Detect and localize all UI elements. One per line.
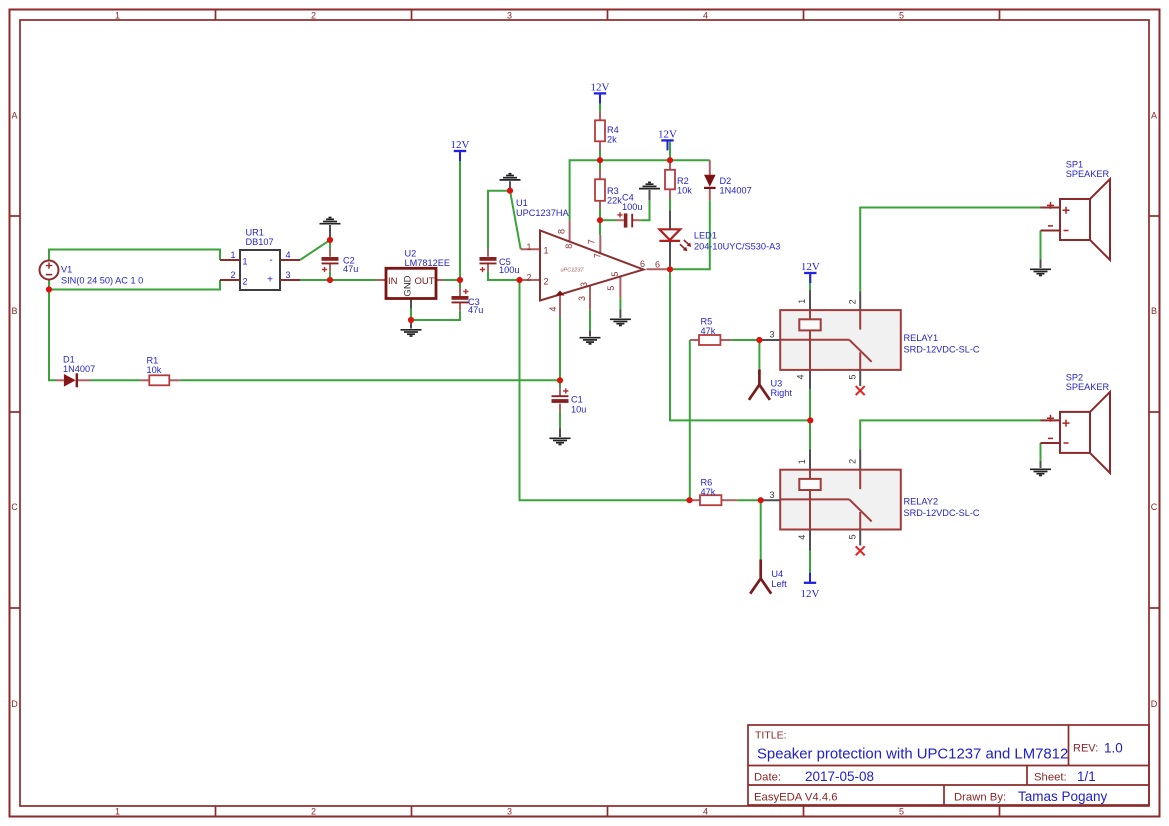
svg-text:REV:: REV: [1073,743,1098,755]
svg-text:TITLE:: TITLE: [755,730,787,742]
svg-text:3: 3 [769,490,774,500]
svg-text:5: 5 [847,374,857,379]
svg-text:204-10UYC/S530-A3: 204-10UYC/S530-A3 [694,242,780,252]
svg-text:SPEAKER: SPEAKER [1066,382,1110,392]
svg-text:RELAY1: RELAY1 [904,333,939,343]
svg-text:U4: U4 [771,569,783,579]
svg-text:Sheet:: Sheet: [1034,772,1067,784]
svg-text:47k: 47k [701,326,716,336]
svg-text:3: 3 [507,806,512,816]
svg-text:1/1: 1/1 [1077,769,1096,784]
svg-text:6: 6 [655,259,660,269]
svg-text:C1: C1 [571,395,583,405]
svg-text:3: 3 [579,282,589,287]
svg-text:Drawn By:: Drawn By: [954,792,1006,804]
svg-text:100u: 100u [622,202,642,212]
svg-text:OUT: OUT [415,276,435,287]
svg-text:C: C [1151,502,1158,512]
svg-text:SP2: SP2 [1066,372,1083,382]
svg-text:12V: 12V [451,139,470,151]
svg-text:7: 7 [593,253,603,258]
svg-text:2: 2 [243,277,248,287]
svg-text:C: C [11,502,18,512]
svg-text:10k: 10k [677,185,692,195]
svg-text:+: + [267,275,273,286]
svg-text:2: 2 [311,806,316,816]
svg-text:R6: R6 [701,478,713,488]
svg-text:2: 2 [847,299,857,304]
svg-text:IN: IN [388,276,398,287]
svg-text:-: - [269,255,272,266]
svg-text:3: 3 [507,10,512,20]
svg-text:5: 5 [610,272,620,277]
svg-text:3: 3 [285,270,290,280]
svg-text:LED1: LED1 [694,231,717,241]
svg-text:47u: 47u [343,264,358,274]
svg-text:1N4007: 1N4007 [720,185,752,195]
svg-text:3: 3 [769,330,774,340]
svg-text:B: B [1151,306,1157,316]
svg-text:4: 4 [703,806,708,816]
svg-text:1: 1 [115,10,120,20]
svg-text:GND: GND [403,275,414,296]
svg-text:10u: 10u [571,405,586,415]
svg-text:1: 1 [797,299,807,304]
svg-text:UPC1237HA: UPC1237HA [516,208,569,218]
svg-text:2: 2 [230,270,235,280]
svg-text:4: 4 [797,535,807,540]
svg-text:47k: 47k [701,487,716,497]
svg-text:6: 6 [640,259,645,269]
svg-text:4: 4 [285,250,290,260]
svg-text:47u: 47u [468,305,483,315]
svg-text:8: 8 [564,244,574,249]
svg-text:SRD-12VDC-SL-C: SRD-12VDC-SL-C [904,345,980,355]
svg-text:12V: 12V [591,82,610,94]
svg-text:2: 2 [526,273,531,283]
svg-text:EasyEDA V4.4.6: EasyEDA V4.4.6 [754,792,838,804]
svg-text:1: 1 [544,246,549,256]
svg-text:A: A [11,110,17,120]
svg-text:SP1: SP1 [1066,160,1083,170]
svg-text:4: 4 [796,374,806,379]
svg-text:R5: R5 [701,317,713,327]
svg-text:2017-05-08: 2017-05-08 [805,769,874,784]
svg-text:SRD-12VDC-SL-C: SRD-12VDC-SL-C [904,508,980,518]
svg-text:12V: 12V [801,261,820,273]
svg-text:1: 1 [526,242,531,252]
svg-text:uPC1237: uPC1237 [561,268,585,274]
svg-text:B: B [11,306,17,316]
svg-text:12V: 12V [658,129,677,141]
svg-text:Right: Right [771,388,793,398]
svg-text:R4: R4 [607,125,619,135]
svg-text:LM7812EE: LM7812EE [405,258,450,268]
svg-text:1: 1 [115,806,120,816]
svg-text:DB107: DB107 [246,237,274,247]
svg-text:1: 1 [797,459,807,464]
svg-text:D: D [1151,699,1158,709]
svg-text:Tamas Pogany: Tamas Pogany [1018,789,1108,804]
svg-text:3: 3 [577,296,587,301]
svg-text:2: 2 [847,459,857,464]
svg-text:2: 2 [544,276,549,286]
svg-text:1.0: 1.0 [1104,741,1123,756]
svg-text:1N4007: 1N4007 [63,364,95,374]
svg-text:U3: U3 [771,379,783,389]
svg-text:RELAY2: RELAY2 [904,497,939,507]
svg-text:Left: Left [771,579,787,589]
svg-text:1: 1 [230,250,235,260]
svg-text:7: 7 [586,239,596,244]
svg-text:4: 4 [548,307,558,312]
svg-text:U1: U1 [516,198,528,208]
svg-text:10k: 10k [147,365,162,375]
svg-text:D: D [11,699,18,709]
svg-text:5: 5 [899,10,904,20]
svg-text:5: 5 [848,534,858,539]
svg-text:2: 2 [311,10,316,20]
svg-text:V1: V1 [61,265,72,275]
svg-text:2k: 2k [607,135,617,145]
svg-text:22k: 22k [607,195,622,205]
svg-text:5: 5 [606,286,616,291]
svg-text:SPEAKER: SPEAKER [1066,169,1110,179]
svg-text:Date:: Date: [754,772,781,784]
svg-text:SIN(0 24 50) AC 1 0: SIN(0 24 50) AC 1 0 [61,276,143,286]
svg-text:4: 4 [703,10,708,20]
svg-text:12V: 12V [801,588,820,600]
svg-text:8: 8 [556,229,566,234]
svg-text:1: 1 [243,257,248,267]
svg-text:A: A [1151,110,1157,120]
svg-text:100u: 100u [499,265,519,275]
svg-text:5: 5 [899,806,904,816]
svg-text:Speaker protection with UPC123: Speaker protection with UPC1237 and LM78… [757,747,1068,763]
